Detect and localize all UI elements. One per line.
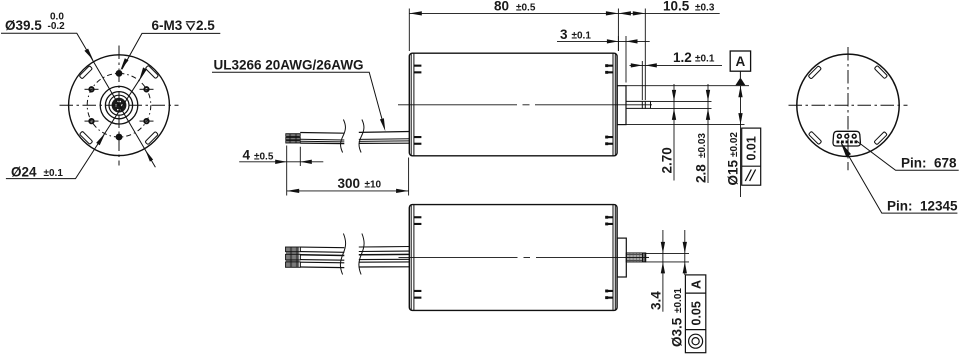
rim slot NE xyxy=(145,65,158,78)
svg-text:Ø24: Ø24 xyxy=(11,164,37,179)
feature control frame (concentricity 0.05 A) xyxy=(685,275,705,353)
label Ø24 xyxy=(11,164,63,179)
shaft groove lines xyxy=(642,101,645,109)
dim 300 arrows xyxy=(287,189,300,193)
bolt hole NW ring xyxy=(85,87,99,91)
wire cable segment 1 bottom xyxy=(300,247,344,268)
leader arrow UL3266 xyxy=(380,118,385,131)
label Ø39.5 xyxy=(5,12,65,34)
boss dia extension lines to right xyxy=(626,86,749,125)
shaft spline lines xyxy=(627,255,642,261)
stripped wire stubs bottom xyxy=(286,247,301,267)
datum triangle xyxy=(735,78,745,86)
leader arrow Pin 12345 xyxy=(840,142,851,157)
svg-text:±0.03: ±0.03 xyxy=(697,133,708,158)
label 6-M3 depth 2.5 xyxy=(152,18,216,33)
svg-text:±10: ±10 xyxy=(365,180,382,191)
label 300 xyxy=(338,176,382,191)
leader arrow Ø24 lower (tip on bolt circle) xyxy=(96,133,105,146)
cable break mark right bottom xyxy=(359,234,364,275)
svg-text:2.70: 2.70 xyxy=(660,147,675,173)
label Ø15 rotated xyxy=(726,132,741,186)
cable break mark left bottom xyxy=(340,234,345,275)
rear slot NE xyxy=(874,65,887,78)
wire cable segment 1 xyxy=(300,133,344,144)
dim 300: extension line right xyxy=(408,158,410,196)
dim 80: dimension line xyxy=(409,12,618,14)
shaft top line xyxy=(626,100,651,102)
rear vertical centerline xyxy=(847,47,849,170)
left end-cap inner line xyxy=(413,53,415,155)
svg-text:±0.1: ±0.1 xyxy=(695,54,715,65)
shaft bottom line xyxy=(626,107,651,109)
svg-text:-0.2: -0.2 xyxy=(48,21,66,32)
body tabs bottom view xyxy=(414,216,613,299)
shaft dia extension lines to right xyxy=(651,101,712,108)
datum A box xyxy=(730,51,750,71)
svg-text:±0.3: ±0.3 xyxy=(695,2,715,13)
bolt hole NE ring xyxy=(140,87,154,91)
cable break mark left xyxy=(341,120,346,153)
svg-text:±0.01: ±0.01 xyxy=(673,288,684,313)
cable break mark right xyxy=(359,120,364,153)
svg-text:6-M3: 6-M3 xyxy=(152,18,183,33)
svg-text:±0.1: ±0.1 xyxy=(572,31,592,42)
dim 300: dimension line xyxy=(287,190,409,192)
dim 2.70 arrows xyxy=(672,90,676,102)
leader line Ø24 xyxy=(6,69,147,179)
connector pins row 1 (6 7 8) xyxy=(838,134,857,138)
centerline bottom view xyxy=(399,256,650,258)
svg-text:UL3266 20AWG/26AWG: UL3266 20AWG/26AWG xyxy=(214,58,364,73)
shaft outline bottom view xyxy=(626,253,645,262)
dim 1.2: dimension line xyxy=(630,64,723,66)
motor body outline xyxy=(409,53,617,156)
leader line UL3266 wire xyxy=(212,72,384,127)
rim slot SW xyxy=(79,131,92,144)
dim 4 arrows (outside) xyxy=(275,160,287,164)
svg-text:10.5: 10.5 xyxy=(663,0,690,14)
wire cable segment 2 bottom xyxy=(359,247,410,268)
dim 2.70 vertical line xyxy=(673,84,675,181)
bolt hole SW ring xyxy=(85,119,99,123)
rim slot NW xyxy=(79,66,92,79)
svg-text:1.2: 1.2 xyxy=(673,50,692,65)
dim Ø15 vertical line xyxy=(740,86,742,197)
parallelism symbol xyxy=(745,170,755,182)
dim Ø3.5 vertical line xyxy=(684,230,686,275)
svg-text:±0.5: ±0.5 xyxy=(516,2,536,13)
shaft end line xyxy=(650,101,652,108)
leader line 6-M3 (underline + diagonal to N hole) xyxy=(122,33,220,69)
svg-text:3.4: 3.4 xyxy=(649,291,664,310)
rear slot SW xyxy=(808,131,821,144)
feature control frame (parallelism 0.01) xyxy=(742,128,761,185)
svg-text:±0.5: ±0.5 xyxy=(254,151,274,162)
label 2.8 rotated xyxy=(694,133,709,183)
front view horizontal centerline xyxy=(60,104,179,106)
label 3 xyxy=(560,27,591,42)
dim 10.5 arrows xyxy=(618,11,631,15)
svg-text:A: A xyxy=(690,280,704,289)
svg-text:80: 80 xyxy=(494,0,509,14)
connector body xyxy=(833,131,860,146)
svg-text:300: 300 xyxy=(338,176,361,191)
svg-text:Pin: 12345: Pin: 12345 xyxy=(887,198,958,213)
svg-text:Pin: 678: Pin: 678 xyxy=(901,156,957,171)
dim 2.8 vertical line xyxy=(707,84,709,183)
leader arrow Ø24 upper (tip on bolt circle) xyxy=(139,67,147,81)
BOTTOM-SIDE-VIEW xyxy=(239,146,706,353)
bolt hole N (filled) xyxy=(116,70,123,77)
dim 3 arrows (outside) xyxy=(607,39,619,43)
svg-text:±0.02: ±0.02 xyxy=(729,132,740,157)
leader arrow Ø39.5 lower (tip on circle) xyxy=(145,150,153,162)
front view shaft knurled disc xyxy=(112,98,127,113)
leader line Ø39.5 xyxy=(1,33,155,167)
dim 1.2: extension lines xyxy=(642,9,645,101)
shaft groove ticks bottom xyxy=(643,253,645,262)
stripped wire stubs xyxy=(286,134,300,143)
dim 4: extension lines xyxy=(287,146,301,196)
dim Ø3.5 arrows xyxy=(683,242,687,254)
front view hub ring 1 xyxy=(100,86,138,124)
connector pins row 2 (1-5) xyxy=(837,141,858,144)
left end-cap lines xyxy=(411,205,414,310)
front view hub ring 3 xyxy=(109,95,129,115)
svg-text:0.05: 0.05 xyxy=(690,301,704,325)
dim 1.2 arrows (outside) xyxy=(631,63,643,67)
dim 3.4 arrows xyxy=(661,242,665,254)
bolt circle Ø24 dash-dot xyxy=(87,73,151,137)
FRONT-VIEW xyxy=(1,12,220,180)
datum leader line xyxy=(739,71,741,78)
shaft face white slits xyxy=(115,101,123,110)
REAR-VIEW xyxy=(789,47,959,213)
rear view outer circle xyxy=(797,54,899,156)
bearing boss xyxy=(617,86,626,125)
body tabs left-top xyxy=(414,64,613,145)
rim slot SE xyxy=(145,131,158,144)
rear horizontal centerline xyxy=(789,104,908,106)
label 10.5 xyxy=(663,0,715,14)
bolt hole S (filled) xyxy=(116,134,123,141)
label Ø3.5 rotated xyxy=(670,288,685,347)
svg-text:4: 4 xyxy=(243,148,251,163)
bolt hole SE ring xyxy=(140,119,154,123)
motor body outline bottom view xyxy=(409,205,617,311)
dim Ø15 arrows xyxy=(738,86,742,98)
depth symbol xyxy=(186,22,195,30)
svg-text:2.5: 2.5 xyxy=(196,18,215,33)
dim 10.5: dimension line xyxy=(618,12,719,14)
bearing boss bottom view xyxy=(617,238,626,277)
front view vertical centerline xyxy=(118,46,120,166)
svg-text:A: A xyxy=(736,54,746,69)
concentricity symbol xyxy=(689,334,703,348)
dim 80 arrows xyxy=(409,11,422,15)
shaft tip stub xyxy=(646,256,649,258)
dim 3: extension line for boss xyxy=(618,36,626,83)
shaft extension lines right bottom xyxy=(645,253,689,262)
dim 3.4 vertical line xyxy=(662,230,664,312)
label 4 xyxy=(243,148,274,163)
leader arrow Ø39.5 upper (tip on circle) xyxy=(84,49,93,61)
svg-text:Ø3.5: Ø3.5 xyxy=(670,317,685,347)
left end-cap line xyxy=(410,53,412,155)
front view outer circle (motor face Ø39.5) xyxy=(69,55,170,156)
svg-text:3: 3 xyxy=(560,27,568,42)
svg-text:Ø15: Ø15 xyxy=(726,159,741,185)
label 80 xyxy=(494,0,536,14)
svg-text:±0.1: ±0.1 xyxy=(44,168,64,179)
dim 3: dimension line xyxy=(557,40,650,42)
right end-cap inner line xyxy=(612,53,614,155)
dim 4: dimension line xyxy=(239,161,323,163)
svg-text:0.01: 0.01 xyxy=(745,136,759,160)
wire cable segment 2 xyxy=(359,132,410,144)
dim 2.8 arrows xyxy=(706,90,710,102)
svg-text:Ø39.5: Ø39.5 xyxy=(5,18,42,33)
front view hub ring 2 xyxy=(105,92,132,119)
label 1.2 xyxy=(673,50,715,65)
TOP-SIDE-VIEW xyxy=(212,0,761,197)
leader line Pin 12345 xyxy=(842,144,958,214)
right end-cap line xyxy=(614,53,616,155)
dim 80: extension lines xyxy=(409,9,618,52)
centerline top view xyxy=(398,104,652,106)
svg-text:2.8: 2.8 xyxy=(694,164,709,183)
shaft spline verticals xyxy=(630,253,640,262)
leader arrow 6-M3 xyxy=(120,58,128,70)
rear slot NW xyxy=(808,66,821,79)
leader line Pin 678 xyxy=(856,141,959,171)
rear slot SE xyxy=(874,132,887,145)
right end-cap lines xyxy=(613,205,615,310)
